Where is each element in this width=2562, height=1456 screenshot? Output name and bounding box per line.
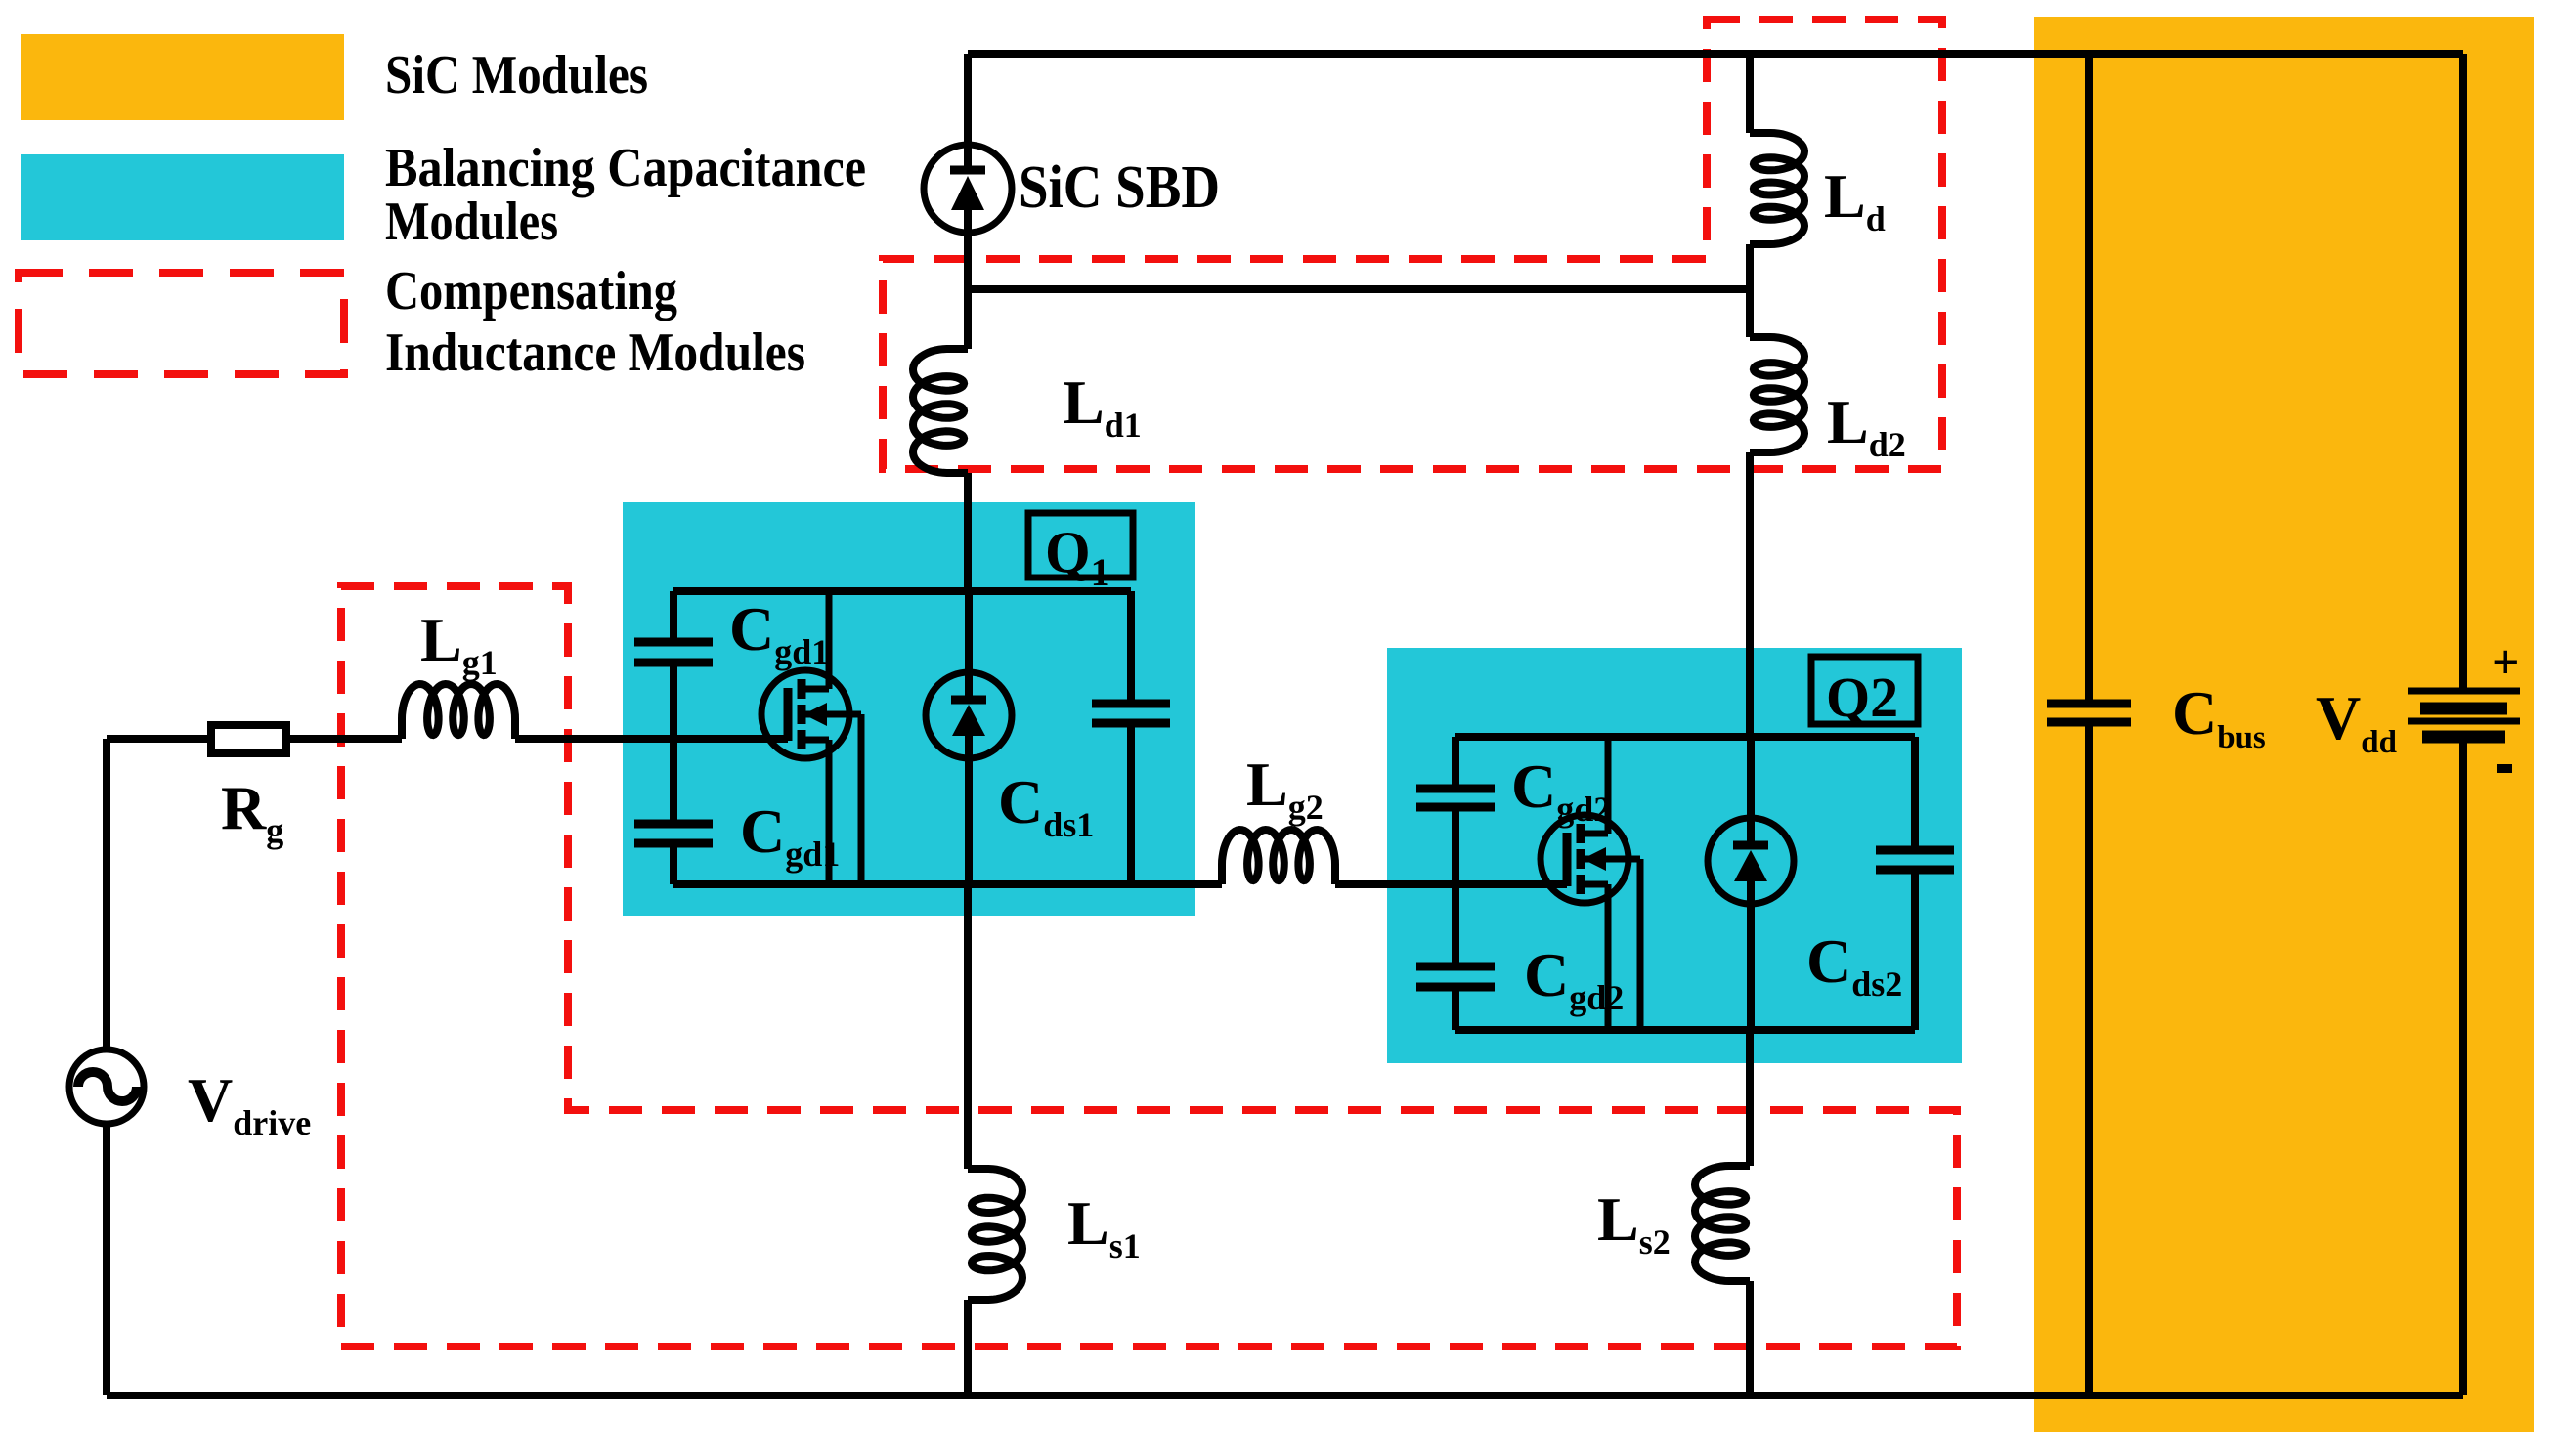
wire: gate loop 1 horizontal (Vdrive to Q1 gate) <box>107 735 788 743</box>
svg-text:Ls1: Ls1 <box>1067 1188 1141 1265</box>
wire: Cbus branch vertical <box>2085 54 2093 1395</box>
svg-text:Ld1: Ld1 <box>1063 367 1142 445</box>
svg-text:Ld2: Ld2 <box>1827 387 1906 464</box>
label box Q2 <box>1811 657 1918 724</box>
wire: second horizontal (SBD anode to Ld junction) <box>968 285 1750 293</box>
battery Vdd <box>2408 688 2520 695</box>
svg-text:Balancing Capacitance: Balancing Capacitance <box>385 138 866 198</box>
svg-text:Compensating: Compensating <box>385 261 677 321</box>
capacitor Cgs2 (lower, labelled Cgd2) <box>1416 963 1495 971</box>
orange SiC module region (right) <box>2034 17 2534 1432</box>
svg-text:Modules: Modules <box>385 192 558 252</box>
wire: Ld/Q2 main vertical segments <box>1750 54 1751 1395</box>
cyan balancing capacitance module block Q2 <box>1387 648 1962 1063</box>
inductor Ls2 <box>1695 1166 1750 1281</box>
source Vdrive sine symbol <box>78 1072 137 1101</box>
inductor Ld2 <box>1750 337 1804 452</box>
diode D2 (Q2 body diode) <box>1708 818 1794 904</box>
cyan balancing capacitance module block Q1 <box>623 502 1195 916</box>
svg-text:+: + <box>2492 634 2520 689</box>
svg-text:Lg2: Lg2 <box>1246 749 1324 827</box>
capacitor Cgd2 (upper) <box>1416 785 1495 793</box>
wire: left vertical (Vdrive branch) <box>103 739 110 1395</box>
wire: right vertical Vdd loop <box>2459 54 2467 1395</box>
capacitor Cgd1 (upper) <box>634 638 713 647</box>
inductor Lg1 <box>402 684 515 739</box>
svg-text:Inductance Modules: Inductance Modules <box>385 322 805 383</box>
svg-text:Ls2: Ls2 <box>1597 1184 1671 1262</box>
inductor Ls1 <box>968 1169 1022 1300</box>
svg-text:Q2: Q2 <box>1826 665 1898 729</box>
capacitor Cds1 <box>1092 700 1170 708</box>
inductor Ld1 <box>913 349 968 473</box>
legend swatch: Balancing Capacitance Modules (cyan) <box>21 154 344 240</box>
svg-text:Ld: Ld <box>1824 161 1886 238</box>
diode D1 (Q1 body diode) <box>926 672 1012 758</box>
Q1 inner circuit outline <box>673 591 1195 884</box>
capacitor Cds2 <box>1876 846 1954 855</box>
transistor Q1 MOSFET symbol <box>761 670 849 758</box>
wire: SBD/Q1 main vertical segments <box>968 54 969 1395</box>
svg-text:SiC SBD: SiC SBD <box>1019 154 1220 221</box>
diode SiC SBD <box>924 145 1012 233</box>
label box Q1 <box>1028 513 1133 578</box>
wire: gate loop 2 horizontal (Q1 source to Q2 gate) <box>1195 880 1567 888</box>
svg-text:Lg1: Lg1 <box>420 605 498 682</box>
transistor Q2 MOSFET symbol <box>1541 815 1628 903</box>
resistor Rg <box>211 725 286 753</box>
svg-text:SiC Modules: SiC Modules <box>385 45 648 106</box>
source Vdrive circle <box>69 1049 144 1124</box>
inductor Lg2 <box>1222 830 1335 884</box>
red dashed compensating inductance module box (Ld, Ld1, Ld2) <box>883 20 1942 469</box>
wire: bottom return bus <box>107 1392 2463 1399</box>
inductor Ld <box>1750 133 1804 244</box>
capacitor Cgs1 (lower, labelled Cgd1) <box>634 820 713 829</box>
red dashed compensating inductance module box (Lg1, Ls1, Ls2) <box>341 586 1957 1347</box>
wire: top bus (drain rail) <box>968 50 2463 58</box>
capacitor Cbus <box>2047 700 2131 708</box>
svg-text:Rg: Rg <box>221 773 283 850</box>
legend swatch: Compensating Inductance Modules (red dashed) <box>19 273 344 374</box>
Q2 inner circuit outline <box>1455 737 1915 1030</box>
legend swatch: SiC Modules (orange) <box>21 34 344 120</box>
battery minus sign <box>2497 764 2512 773</box>
svg-text:Vdrive: Vdrive <box>188 1065 311 1142</box>
